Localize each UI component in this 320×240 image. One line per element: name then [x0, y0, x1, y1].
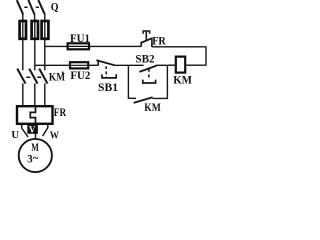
FR heater element jog (middle phase) — [30, 106, 35, 124]
switch Q pole 3 stub wire — [44, 13, 46, 21]
thermal relay FR contact blade — [141, 38, 152, 43]
stop button SB1 fixed contact post — [97, 60, 99, 66]
switch Q pole 2 blade — [28, 0, 34, 14]
wire FU2 to SB1 — [88, 64, 98, 66]
contactor coil KM body — [176, 57, 185, 73]
wire phase L3 fuse to KM contact — [44, 39, 46, 70]
switch Q pole 3 blade — [38, 0, 44, 14]
start button SB2 blade — [139, 66, 156, 72]
wire FR box to motor lead U — [22, 124, 28, 137]
wire phase L3 KM to FR box — [44, 83, 46, 106]
wire phase L1 fuse to KM contact — [22, 39, 24, 70]
start button SB2 actuator cap — [142, 80, 156, 83]
wire SB2 to coil junction — [156, 64, 167, 66]
stop button SB1 blade — [96, 60, 114, 65]
thermal relay FR contact right post — [151, 38, 153, 47]
contactor KM main contact 3 blade — [39, 69, 47, 84]
svg-text:3~: 3~ — [27, 152, 38, 165]
wire FR box to motor lead W — [43, 124, 48, 136]
wire FR contact to top right corner — [152, 47, 206, 65]
fuse 3 wire through — [44, 21, 46, 39]
fuse FU1 wire through — [68, 45, 89, 47]
svg-text:SB2: SB2 — [135, 52, 154, 66]
svg-text:U: U — [11, 129, 19, 141]
wire tap phase L2 to FU2 — [35, 64, 70, 66]
wire FR box to motor lead V — [35, 124, 37, 139]
wire tap phase L3 to FU1 — [45, 45, 68, 47]
svg-text:FR: FR — [152, 36, 166, 48]
stop button SB1 actuator cap — [101, 74, 117, 78]
fuse 1 (phase L1) body — [20, 21, 26, 39]
wire SB1 to SB2 with junction — [114, 64, 144, 66]
wire FU1 to FR contact — [89, 45, 141, 47]
start button SB2 actuator dashes — [148, 69, 150, 80]
fuse FU2 wire through — [70, 64, 88, 66]
svg-text:Q: Q — [51, 0, 59, 14]
thermal relay FR heater box — [17, 106, 53, 124]
fuse FU1 body — [68, 43, 89, 49]
switch Q pole 1 stub wire — [22, 14, 24, 21]
KM aux branch left drop wire — [128, 65, 136, 98]
svg-text:W: W — [50, 130, 59, 142]
fuse 3 (phase L3) body — [42, 21, 49, 39]
svg-text:FR: FR — [54, 107, 67, 119]
fuse FU2 body — [70, 62, 88, 68]
switch Q dashed linkage — [24, 6, 39, 8]
svg-text:KM: KM — [49, 72, 65, 84]
wire phase L1 KM to FR box — [22, 83, 24, 106]
fuse 2 (phase L2) body — [32, 21, 38, 39]
wire phase L2 KM to FR box — [34, 83, 36, 106]
svg-text:SB1: SB1 — [98, 80, 118, 94]
svg-text:KM: KM — [173, 73, 192, 87]
svg-text:KM: KM — [144, 102, 161, 114]
contactor KM main dashed linkage — [26, 76, 41, 78]
contactor KM main contact 2 blade — [29, 69, 37, 84]
KM aux contact blade — [134, 97, 153, 103]
coil KM left wire — [167, 64, 175, 66]
KM aux branch right wire and riser — [152, 65, 167, 98]
wire phase L2 fuse to KM contact — [34, 39, 36, 70]
svg-text:V: V — [29, 124, 36, 134]
switch Q pole 2 stub wire — [34, 14, 36, 21]
switch Q pole 1 blade — [17, 0, 23, 14]
thermal relay FR contact left post — [140, 43, 142, 47]
fuse 2 wire through — [34, 21, 36, 39]
stray dot artifact — [62, 71, 64, 73]
terminal V black marker — [27, 124, 38, 133]
fuse 1 wire through — [22, 21, 24, 39]
thermal relay FR actuator symbol — [143, 31, 149, 40]
stop button SB1 actuator dashes — [105, 66, 107, 77]
svg-text:FU1: FU1 — [70, 33, 90, 45]
svg-text:FU2: FU2 — [70, 70, 90, 82]
motor M circle — [19, 139, 52, 172]
contactor KM main contact 1 blade — [17, 69, 25, 84]
